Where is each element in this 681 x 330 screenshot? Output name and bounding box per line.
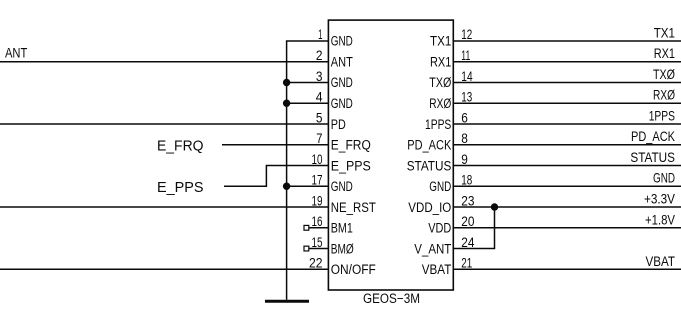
- svg-text:1PPS: 1PPS: [649, 108, 675, 123]
- svg-text:21: 21: [461, 255, 472, 270]
- svg-text:15: 15: [312, 235, 323, 250]
- svg-text:GND: GND: [653, 171, 675, 186]
- svg-text:GND: GND: [331, 75, 353, 90]
- svg-text:PD_ACK: PD_ACK: [407, 138, 451, 153]
- svg-text:E_PPS: E_PPS: [157, 180, 204, 196]
- pin 17 GND wire: [287, 185, 329, 187]
- pin 12 TX1 wire: [453, 40, 681, 42]
- svg-text:22: 22: [309, 255, 323, 270]
- svg-text:GND: GND: [429, 179, 451, 194]
- svg-text:V_ANT: V_ANT: [414, 241, 451, 256]
- pin 13 RX0 wire: [453, 102, 681, 104]
- svg-text:23: 23: [461, 193, 474, 208]
- svg-text:E_FRQ: E_FRQ: [331, 138, 371, 153]
- pin 6 1PPS: [425, 110, 468, 132]
- pin 19 NE_RST: [312, 193, 376, 215]
- pin 12 TX1: [430, 27, 472, 49]
- pin 6 1PPS wire: [453, 123, 681, 125]
- svg-text:VBAT: VBAT: [422, 262, 452, 277]
- pin 7 E_FRQ: [316, 131, 371, 153]
- svg-text:BM1: BM1: [331, 221, 353, 236]
- svg-text:17: 17: [312, 172, 323, 187]
- svg-text:+1.8V: +1.8V: [645, 212, 675, 227]
- pin 24 V_ANT wire to +3.3V: [453, 207, 494, 249]
- svg-text:TXØ: TXØ: [653, 67, 675, 82]
- svg-text:18: 18: [461, 172, 472, 187]
- junction dot +3.3V: [491, 203, 498, 210]
- pin 5 PD wire: [0, 123, 328, 125]
- svg-text:TX1: TX1: [654, 25, 675, 40]
- svg-text:TX1: TX1: [430, 34, 451, 49]
- svg-text:RX1: RX1: [430, 55, 451, 70]
- svg-text:3: 3: [316, 69, 323, 84]
- pin 14 TX0: [429, 69, 473, 90]
- pin 8 PD_ACK: [407, 131, 468, 153]
- junction dot pin 3: [283, 79, 290, 86]
- pin 11 RX1: [430, 48, 470, 70]
- svg-text:24: 24: [461, 235, 475, 250]
- svg-text:NE_RST: NE_RST: [331, 200, 376, 215]
- svg-text:9: 9: [461, 152, 468, 167]
- svg-text:STATUS: STATUS: [407, 158, 452, 173]
- svg-text:GND: GND: [331, 179, 353, 194]
- pin 23 VDD_IO wire: [453, 206, 681, 208]
- svg-text:13: 13: [461, 89, 472, 104]
- svg-text:STATUS: STATUS: [630, 150, 675, 165]
- svg-text:RXØ: RXØ: [429, 96, 451, 111]
- svg-text:6: 6: [461, 110, 468, 125]
- svg-text:4: 4: [316, 89, 323, 104]
- svg-text:7: 7: [316, 131, 322, 146]
- pin 2 ANT wire: [0, 61, 328, 63]
- svg-text:5: 5: [316, 110, 323, 125]
- svg-text:VBAT: VBAT: [646, 254, 676, 269]
- pin 19 NE_RST wire: [0, 206, 328, 208]
- svg-text:1PPS: 1PPS: [425, 117, 451, 132]
- pin 4 GND wire: [287, 102, 329, 104]
- svg-text:1: 1: [318, 27, 322, 42]
- pin 9 STATUS wire: [453, 165, 681, 167]
- pin 20 VDD wire: [453, 227, 681, 229]
- pin 20 VDD: [428, 214, 474, 236]
- pin 10 E_PPS wire with jog: [224, 166, 328, 187]
- junction dot pin 4: [283, 100, 290, 107]
- pin 13 RX0: [429, 89, 472, 111]
- junction dot pin 17: [283, 183, 290, 190]
- op-amp U1 GEOS-3M IC body: [328, 20, 453, 290]
- pin 1 GND: [318, 27, 353, 49]
- svg-text:ANT: ANT: [331, 55, 353, 70]
- pin 24 V_ANT: [414, 235, 475, 257]
- svg-text:GEOS−3M: GEOS−3M: [363, 291, 420, 306]
- pin 18 GND wire: [453, 185, 681, 187]
- svg-text:14: 14: [461, 69, 473, 84]
- svg-text:VDD: VDD: [428, 221, 451, 236]
- pin 23 VDD_IO: [408, 193, 474, 215]
- svg-text:12: 12: [461, 27, 472, 42]
- svg-text:8: 8: [461, 131, 468, 146]
- pin 16 no-connect square: [304, 225, 309, 230]
- svg-text:E_PPS: E_PPS: [331, 158, 371, 173]
- svg-text:PD_ACK: PD_ACK: [631, 129, 675, 144]
- pin 7 E_FRQ wire: [222, 144, 328, 146]
- pin 5 PD: [316, 110, 346, 132]
- pin 21 VBAT wire: [453, 268, 681, 270]
- svg-text:PD: PD: [331, 117, 346, 132]
- pin 15 no-connect square: [304, 246, 309, 251]
- svg-text:11: 11: [461, 48, 470, 63]
- pin 3 GND wire: [287, 82, 329, 84]
- pin 14 TX0 wire: [453, 82, 681, 84]
- pin 4 GND: [316, 89, 353, 111]
- pin 2 ANT: [316, 48, 353, 70]
- svg-text:BMØ: BMØ: [331, 241, 354, 256]
- svg-text:+3.3V: +3.3V: [644, 192, 675, 207]
- pin 22 ON/OFF: [309, 255, 376, 277]
- svg-text:ANT: ANT: [5, 46, 27, 61]
- pin 11 RX1 wire: [453, 61, 681, 63]
- svg-text:GND: GND: [331, 96, 353, 111]
- ground symbol: [265, 300, 309, 303]
- pin 17 GND: [312, 172, 354, 194]
- svg-text:ON/OFF: ON/OFF: [331, 262, 376, 277]
- svg-text:20: 20: [461, 214, 474, 229]
- wire GND bus vertical: [287, 41, 329, 300]
- pin 10 E_PPS: [312, 152, 371, 174]
- pin 18 GND: [429, 172, 472, 194]
- pin 15 BM0: [312, 235, 354, 257]
- svg-text:2: 2: [316, 48, 323, 63]
- pin 16 BM1: [312, 214, 353, 236]
- pin 9 STATUS: [407, 152, 468, 174]
- svg-text:10: 10: [312, 152, 323, 167]
- svg-text:TXØ: TXØ: [429, 75, 451, 90]
- svg-text:RXØ: RXØ: [653, 88, 675, 103]
- pin 22 ON/OFF wire: [0, 268, 328, 270]
- svg-text:RX1: RX1: [654, 46, 675, 61]
- pin 8 PD_ACK wire: [453, 144, 681, 146]
- svg-text:E_FRQ: E_FRQ: [157, 139, 204, 155]
- pin 15 BM0 wire: [309, 248, 329, 250]
- pin 21 VBAT: [422, 255, 473, 277]
- svg-text:VDD_IO: VDD_IO: [408, 200, 451, 215]
- svg-text:19: 19: [312, 193, 323, 208]
- svg-text:16: 16: [312, 214, 323, 229]
- pin 3 GND: [316, 69, 353, 90]
- pin 16 BM1 wire: [309, 227, 329, 229]
- svg-text:GND: GND: [331, 34, 353, 49]
